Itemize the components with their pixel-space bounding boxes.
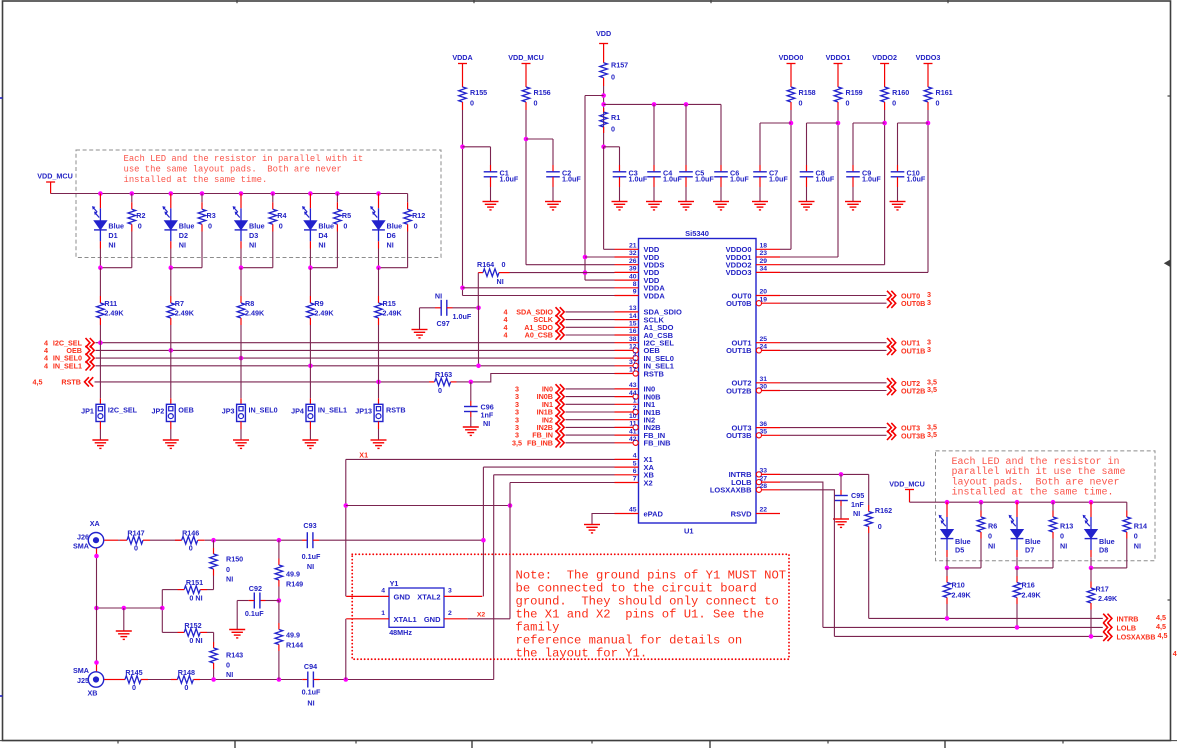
svg-text:1.0uF: 1.0uF [816, 175, 835, 184]
svg-text:OUT3B: OUT3B [901, 431, 925, 440]
svg-text:NI: NI [435, 292, 442, 301]
net label OUT1B 3 with chevron [887, 346, 896, 355]
node RSTB/JP13 [376, 380, 381, 385]
svg-text:4: 4 [44, 361, 48, 370]
svg-text:34: 34 [760, 266, 768, 273]
svg-text:R3: R3 [207, 211, 216, 220]
svg-text:10: 10 [629, 413, 637, 420]
U1 pin 21 VDD [615, 248, 639, 250]
wire R164 left leg [477, 273, 479, 308]
node VDDO3 junction [926, 121, 931, 126]
svg-text:R160: R160 [892, 88, 909, 97]
svg-text:R151: R151 [186, 578, 203, 587]
resistor R143 0 NI [213, 642, 215, 648]
wire JP13 column [378, 325, 380, 398]
wire IN1 to U1 [566, 403, 615, 405]
wire JP3 column [240, 325, 242, 398]
svg-text:LOLB: LOLB [1117, 623, 1137, 632]
dashed option box right [936, 451, 1156, 561]
wire JP3 to ground [240, 422, 242, 430]
wire R147-R146 [150, 539, 182, 541]
svg-text:XA: XA [90, 519, 100, 528]
svg-text:0: 0 [134, 544, 138, 553]
svg-text:2: 2 [448, 610, 452, 617]
svg-text:36: 36 [760, 421, 768, 428]
resistor R2 0 [131, 194, 133, 203]
svg-text:32: 32 [629, 250, 637, 257]
U1 pin 39 VDD [615, 271, 639, 273]
wire C92 to ground [236, 601, 238, 630]
capacitor C4 1.0uF [653, 165, 655, 172]
wire FB_IN to U1 [566, 434, 615, 436]
jumper JP13 RSTB [374, 404, 383, 421]
wire parallel join D2/R3 [171, 267, 202, 269]
svg-text:0: 0 [138, 222, 142, 231]
U1 pin 10 IN2 [615, 419, 639, 421]
resistor R147 0 [120, 539, 127, 541]
svg-text:IN_SEL1: IN_SEL1 [318, 405, 347, 414]
U1 pin 36 OUT3 [756, 427, 780, 429]
svg-text:D8: D8 [1099, 546, 1108, 555]
wire LOSXAXBB row [834, 635, 1102, 637]
LED D6 Blue NI [378, 194, 380, 209]
svg-text:40: 40 [629, 273, 637, 280]
wire JP4 column [309, 325, 311, 398]
node rail D4 [308, 191, 313, 196]
wire JP1 to ground [99, 422, 101, 430]
svg-text:R149: R149 [286, 580, 303, 589]
svg-text:OEB: OEB [178, 405, 194, 414]
wire LOLB row [823, 626, 1103, 628]
svg-text:R17: R17 [1096, 584, 1109, 593]
svg-text:installed at the same time.: installed at the same time. [952, 486, 1114, 498]
svg-text:R8: R8 [245, 299, 254, 308]
svg-text:45: 45 [629, 507, 637, 514]
svg-text:J25: J25 [77, 676, 89, 685]
svg-text:R150: R150 [226, 555, 243, 564]
node VDD rail tap C4 [652, 102, 657, 107]
node OEB/JP2 [169, 348, 174, 353]
U1 pin 29 VDDO2 [756, 264, 780, 266]
wire OUT0B to chevron [780, 302, 887, 304]
resistor R158 0 [787, 87, 795, 102]
node XA/R150 [211, 538, 216, 543]
wire VDD west branch down [585, 95, 604, 97]
wire OUT2 to chevron [780, 382, 887, 384]
svg-text:NI: NI [226, 670, 233, 679]
svg-text:OUT3B: OUT3B [726, 431, 752, 440]
svg-text:0.1uF: 0.1uF [245, 609, 264, 618]
wire R162 to INTRB row [868, 533, 870, 618]
svg-text:43: 43 [629, 382, 637, 389]
svg-text:J26: J26 [77, 533, 89, 542]
capacitor C92 0.1uF [266, 600, 279, 602]
svg-text:R13: R13 [1060, 522, 1073, 531]
node rail D1 [98, 191, 103, 196]
svg-text:ePAD: ePAD [644, 509, 664, 518]
svg-text:OUT0B: OUT0B [726, 299, 752, 308]
resistor R159 0 [834, 87, 842, 102]
wire VDD cap rail [604, 103, 721, 105]
node VDD branch to pin32/39/40 rail [601, 93, 606, 98]
wire VDD to pin 40 [585, 279, 615, 281]
jumper JP4 IN_SEL1 [306, 404, 315, 421]
svg-text:2.49K: 2.49K [952, 590, 972, 599]
ground below C1 [483, 201, 499, 203]
svg-text:C97: C97 [437, 319, 450, 328]
net label LOLB 4,5 with chevron [1103, 623, 1112, 632]
wire XB line [200, 679, 302, 681]
wire VDDO0 to U1 [780, 248, 791, 250]
wire INTRB row [869, 617, 1103, 619]
U1 pin 43 IN0 [615, 388, 639, 390]
LED D4 Blue NI [309, 194, 311, 209]
svg-text:33: 33 [760, 468, 768, 475]
node C94/XTAL1 branch [344, 677, 349, 682]
svg-text:VDDO2: VDDO2 [872, 53, 897, 62]
node VDDO1 junction [836, 121, 841, 126]
svg-text:FB_INB: FB_INB [527, 438, 553, 447]
svg-text:4: 4 [504, 331, 508, 340]
node IN_SEL1/C97 leg [476, 364, 481, 369]
svg-text:D5: D5 [955, 546, 964, 555]
capacitor C3 1.0uF [619, 165, 621, 172]
node IN_SEL0/JP3 [239, 356, 244, 361]
node rail R5 [335, 191, 340, 196]
resistor R150 0 NI [213, 540, 215, 548]
svg-text:15: 15 [629, 321, 637, 328]
border zone mark left edge [0, 97, 3, 99]
U1 pin 40 VDD [615, 279, 639, 281]
svg-text:Blue: Blue [955, 537, 971, 546]
svg-text:2.49K: 2.49K [314, 309, 334, 318]
wire to C2 [526, 138, 553, 140]
svg-text:JP2: JP2 [152, 406, 165, 415]
svg-text:NI: NI [249, 241, 256, 250]
border tick marks top [236, 0, 238, 3]
svg-text:5: 5 [633, 460, 637, 467]
node VDD_MCU-C2 junction [524, 137, 529, 142]
U1 pin 24 OUT1B [762, 349, 780, 351]
node VDDA-C1 junction [460, 145, 465, 150]
wire VDDO1 to U1 [780, 256, 838, 258]
svg-text:R157: R157 [611, 61, 628, 70]
svg-text:3,5: 3,5 [927, 430, 937, 439]
resistor R157 0 [600, 63, 608, 78]
node shield rail J26 column [94, 606, 99, 611]
ground below ePAD [584, 524, 600, 526]
svg-text:R148: R148 [178, 668, 195, 677]
svg-text:0: 0 [279, 222, 283, 231]
wire X2 row to U1 pin 7 [510, 482, 615, 484]
node XB/R143 [211, 677, 216, 682]
svg-text:X2: X2 [644, 478, 653, 487]
svg-text:R152: R152 [184, 621, 201, 630]
ground below C10 [890, 201, 906, 203]
wire XTAL1 vertical [345, 619, 347, 680]
svg-text:R2: R2 [136, 211, 145, 220]
svg-text:44: 44 [629, 390, 637, 397]
svg-text:R15: R15 [383, 299, 396, 308]
wire parallel join D7/R13 [1017, 567, 1053, 569]
svg-text:0: 0 [184, 683, 188, 692]
wire IN0 to U1 [566, 388, 615, 390]
wire R163 to U1 pin 17 RSTB [457, 381, 471, 383]
U1 pin 7 X2 [615, 482, 639, 484]
svg-text:0: 0 [611, 125, 615, 134]
border zone arrow right edge [1164, 260, 1171, 268]
svg-text:18: 18 [760, 243, 768, 250]
wire to C1 [463, 146, 491, 148]
LED D1 Blue NI [99, 194, 101, 209]
U1 pin 38 I2C_SEL [615, 342, 639, 344]
svg-text:D3: D3 [249, 231, 258, 240]
svg-text:0: 0 [799, 99, 803, 108]
U1 pin 5 XA [615, 466, 639, 468]
svg-text:0: 0 [208, 222, 212, 231]
wire JP2 to ground [170, 422, 172, 430]
node VDDO0 junction [789, 121, 794, 126]
svg-text:4: 4 [1173, 649, 1177, 658]
svg-text:20: 20 [760, 289, 768, 296]
svg-text:FB_INB: FB_INB [644, 439, 672, 448]
svg-text:RSTB: RSTB [386, 405, 406, 414]
wire FB_INB to U1 [566, 442, 615, 444]
U1 pin 15 A1_SDO [615, 326, 639, 328]
svg-text:Si5340: Si5340 [685, 229, 709, 238]
svg-text:48MHz: 48MHz [389, 628, 412, 637]
wire C93 to XA vertical [319, 539, 483, 541]
node C97/R164 junction [476, 306, 481, 311]
resistor R164 0 NI [478, 272, 483, 274]
svg-text:0: 0 [502, 260, 506, 269]
svg-text:R147: R147 [127, 529, 144, 538]
svg-text:3,5: 3,5 [927, 385, 937, 394]
wire shield rail [97, 607, 163, 609]
ground below C92 [229, 629, 245, 631]
resistor R8 2.49K [240, 268, 242, 296]
svg-text:0.1uF: 0.1uF [302, 688, 321, 697]
node XA/R149 [277, 538, 282, 543]
jumper JP2 OEB [166, 404, 175, 421]
wire JP13 to ground [378, 422, 380, 430]
resistor R163 0 [429, 381, 435, 383]
svg-text:NI: NI [387, 241, 394, 250]
svg-text:1.0uF: 1.0uF [695, 175, 714, 184]
svg-text:2.49K: 2.49K [245, 309, 265, 318]
svg-text:0: 0 [470, 99, 474, 108]
LED D2 Blue NI [170, 194, 172, 209]
svg-text:R143: R143 [226, 651, 243, 660]
svg-text:LOSXAXBB: LOSXAXBB [710, 486, 752, 495]
svg-text:49.9: 49.9 [286, 631, 300, 640]
U1 pin 1 IN1 [615, 403, 639, 405]
svg-text:1.0uF: 1.0uF [453, 312, 472, 321]
svg-text:12: 12 [629, 344, 637, 351]
wire VDDO2 down [884, 110, 886, 265]
svg-text:41: 41 [629, 428, 637, 435]
svg-text:26: 26 [629, 258, 637, 265]
wire R145-R148 [148, 679, 177, 681]
svg-text:R5: R5 [342, 211, 351, 220]
capacitor C2 1.0uF [552, 165, 554, 172]
wire VDDO2 to C9 [853, 122, 885, 124]
svg-text:0: 0 [1134, 531, 1138, 540]
ground below JP2 [163, 439, 179, 441]
svg-text:1.0uF: 1.0uF [500, 175, 519, 184]
svg-text:3: 3 [448, 587, 452, 594]
node INTRB/C95 [839, 472, 844, 477]
resistor R148 0 [171, 679, 177, 681]
wire VDD down to pin 21 [603, 147, 605, 250]
node LOLB/R16 [1015, 625, 1020, 630]
wire R152 to R143 [213, 632, 215, 642]
node shield J26 [94, 554, 99, 559]
svg-text:use the same layout pads. Bot: use the same layout pads. Both are never [124, 165, 342, 175]
wire LOSXAXBB from pin 28 [780, 490, 834, 637]
U1 pin 44 IN0B [615, 396, 633, 398]
svg-text:the X1 and X2 pins of U1. See: the X1 and X2 pins of U1. See the [516, 608, 765, 622]
capacitor C96 1nF NI [470, 382, 472, 401]
ground below C95 [833, 518, 849, 520]
U1 pin 22 RSVD [756, 513, 780, 515]
U1 pin 37 IN_SEL1 [615, 365, 633, 367]
resistor R149 49.9 [278, 540, 280, 558]
svg-text:16: 16 [629, 328, 637, 335]
svg-text:27: 27 [760, 475, 768, 482]
svg-text:1nF: 1nF [851, 500, 864, 509]
svg-text:GND: GND [394, 592, 411, 601]
wire XB vertical to C94 row [493, 475, 495, 680]
wire OUT0 to chevron [780, 295, 887, 297]
svg-text:4,5: 4,5 [1158, 631, 1168, 640]
svg-text:the layout for Y1.: the layout for Y1. [516, 647, 648, 661]
capacitor C94 0.1uF NI [302, 679, 308, 681]
svg-text:21: 21 [629, 243, 637, 250]
capacitor C7 1.0uF [759, 165, 761, 172]
wire X1 vertical to Y1 pin 4 [345, 459, 347, 596]
svg-text:installed at the same time.: installed at the same time. [124, 175, 268, 185]
svg-text:0: 0 [414, 222, 418, 231]
wire VDDO3 to U1 [780, 271, 928, 273]
svg-text:U1: U1 [684, 527, 694, 536]
wire VDDA to pin 9 [463, 295, 615, 297]
ground below C2 [545, 201, 561, 203]
U1 pin 17 RSTB [615, 373, 633, 375]
U1 pin 4 X1 [615, 458, 639, 460]
wire OUT3 to chevron [780, 427, 887, 429]
wire LOLB from pin 27 [780, 482, 823, 627]
net label OUT2B 3,5 with chevron [887, 386, 896, 395]
wire RSTB row [95, 381, 430, 383]
svg-text:JP4: JP4 [291, 406, 304, 415]
U1 pin 41 FB_IN [615, 434, 639, 436]
svg-text:SMA: SMA [73, 542, 89, 551]
svg-text:NI: NI [179, 241, 186, 250]
svg-text:R162: R162 [875, 506, 892, 515]
U1 pin 31 OUT2 [756, 382, 780, 384]
net label OUT3B 3,5 with chevron [887, 431, 896, 440]
net label OUT2 3,5 with chevron [887, 378, 896, 387]
wire VDD_MCU down to U1 pin 26 [525, 110, 527, 265]
capacitor C5 1.0uF [685, 165, 687, 172]
wire net I2C_SEL to U1 [96, 342, 615, 344]
svg-text:RSTB: RSTB [61, 378, 81, 387]
resistor R144 49.9 [278, 601, 280, 624]
ground below JP13 [371, 439, 387, 441]
wire C94 east [320, 679, 494, 681]
svg-text:2.49K: 2.49K [383, 309, 403, 318]
wire SCLK to U1 [566, 319, 615, 321]
wire parallel join D5/R6 [947, 567, 981, 569]
ground below C3 [612, 201, 628, 203]
svg-text:D6: D6 [387, 231, 396, 240]
svg-text:2.49K: 2.49K [175, 309, 195, 318]
svg-text:reference manual for details o: reference manual for details on [516, 634, 743, 648]
capacitor C10 1.0uF [897, 165, 899, 172]
resistor R3 0 [201, 194, 203, 203]
U1 pin 30 OUT2B [762, 390, 780, 392]
node RSTB/C96 junction [469, 380, 474, 385]
node I2C_SEL/JP1 [98, 340, 103, 345]
svg-text:0: 0 [226, 565, 230, 574]
wire OUT1 to chevron [780, 342, 887, 344]
U1 pin 34 VDDO3 [756, 271, 780, 273]
wire X1-X2 bridge [346, 505, 510, 507]
svg-text:R11: R11 [104, 299, 117, 308]
svg-text:NI: NI [226, 575, 233, 584]
U1 pin 42 FB_INB [615, 442, 633, 444]
U1 pin 8 VDDA [615, 287, 639, 289]
svg-text:IN_SEL0: IN_SEL0 [249, 405, 278, 414]
svg-text:NI: NI [318, 241, 325, 250]
Y1 pin 3 stub [444, 595, 482, 597]
U1 pin 2 IN1B [615, 411, 633, 413]
ground below C6 [713, 201, 729, 203]
svg-text:Note: The ground pins of Y1 M: Note: The ground pins of Y1 MUST NOT [516, 568, 787, 582]
node X1 bridge west [344, 503, 349, 508]
svg-text:NI: NI [497, 277, 504, 286]
svg-text:NI: NI [108, 241, 115, 250]
wire net IN_SEL1 to U1 [96, 365, 615, 367]
svg-text:OUT0B: OUT0B [901, 299, 925, 308]
svg-text:R4: R4 [277, 211, 286, 220]
U1 pin 11 IN2B [615, 426, 633, 428]
svg-text:1.0uF: 1.0uF [562, 175, 581, 184]
svg-text:3: 3 [633, 351, 637, 358]
svg-text:2.49K: 2.49K [1098, 594, 1118, 603]
net label OUT0B 3 with chevron [887, 299, 896, 308]
resistor R7 2.49K [170, 268, 172, 296]
wire R151 left down [161, 590, 163, 633]
svg-text:Blue: Blue [179, 222, 195, 231]
svg-text:VDD_MCU: VDD_MCU [508, 53, 544, 62]
LED D3 Blue NI [240, 194, 242, 209]
wire X2 vertical to Y1 pin 2 [509, 483, 511, 619]
net label OUT3 3,5 with chevron [887, 423, 896, 432]
svg-text:NI: NI [307, 562, 314, 571]
svg-text:VDDO0: VDDO0 [779, 53, 804, 62]
svg-text:35: 35 [760, 429, 768, 436]
svg-text:Blue: Blue [318, 222, 334, 231]
svg-text:0: 0 [343, 222, 347, 231]
U1 pin 28 LOSXAXBB [762, 489, 780, 491]
node XB/R144 [277, 677, 282, 682]
Y1 pin 2 stub [444, 618, 468, 620]
svg-text:42: 42 [629, 436, 637, 443]
svg-text:NI: NI [483, 419, 490, 428]
svg-text:Blue: Blue [249, 222, 265, 231]
